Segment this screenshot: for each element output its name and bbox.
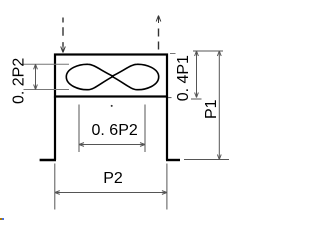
dashed removal line right [158, 29, 160, 54]
extension line P2 left [54, 164, 56, 210]
extension line 0.6P2 left [78, 105, 80, 153]
arrow 0.4P1 down [195, 93, 199, 98]
arrow 0.4P1 up [195, 51, 199, 56]
svg-text:P2: P2 [103, 170, 123, 187]
extension line P2 right [166, 164, 168, 210]
right leg [166, 97, 168, 161]
right foot [166, 159, 180, 161]
extension tick 0.4P1 bottom at body edge [168, 97, 172, 99]
arrow 0.2P2 down [34, 85, 38, 90]
down arrow on left dashed line [61, 44, 66, 53]
extension tick top right corner [170, 53, 176, 55]
extension line 0.2P2 bottom [24, 89, 70, 91]
arrow 0.2P2 up [34, 64, 38, 69]
arrow P1 up [217, 51, 221, 56]
arrow 0.6P2 right [140, 143, 145, 147]
arrow P2 left [55, 191, 60, 195]
arrow P1 down [217, 155, 221, 160]
extension line 0.2P2 top [24, 63, 70, 65]
dimension line 0.6P2 [79, 144, 145, 146]
extension line 0.6P2 right [144, 105, 146, 153]
center dot [111, 105, 113, 107]
up arrow on right dashed line [156, 16, 161, 24]
dashed insertion line left [62, 18, 64, 47]
svg-text:0. 6P2: 0. 6P2 [92, 122, 138, 139]
bowtie loop left [66, 64, 113, 89]
bowtie loop right [112, 64, 159, 89]
head rectangle (component body outline) [55, 55, 167, 97]
svg-text:P1: P1 [203, 99, 220, 119]
arrow P2 right [162, 191, 167, 195]
left leg [54, 97, 56, 161]
svg-text:0. 4P1: 0. 4P1 [175, 55, 192, 101]
extension line P1 bottom [184, 159, 229, 161]
extension line right top [193, 50, 223, 52]
dimension line 0.4P1 [196, 51, 198, 98]
left foot [40, 159, 56, 161]
dimension line P2 [55, 192, 167, 194]
dimension line 0.2P2 [35, 64, 37, 89]
svg-text:0. 2P2: 0. 2P2 [10, 58, 27, 104]
arrow 0.6P2 left [79, 143, 84, 147]
extension line 0.4P1 bottom under arrow [191, 98, 202, 100]
corner artifact pixels [0, 218, 2, 220]
dimension line P1 [218, 51, 220, 160]
